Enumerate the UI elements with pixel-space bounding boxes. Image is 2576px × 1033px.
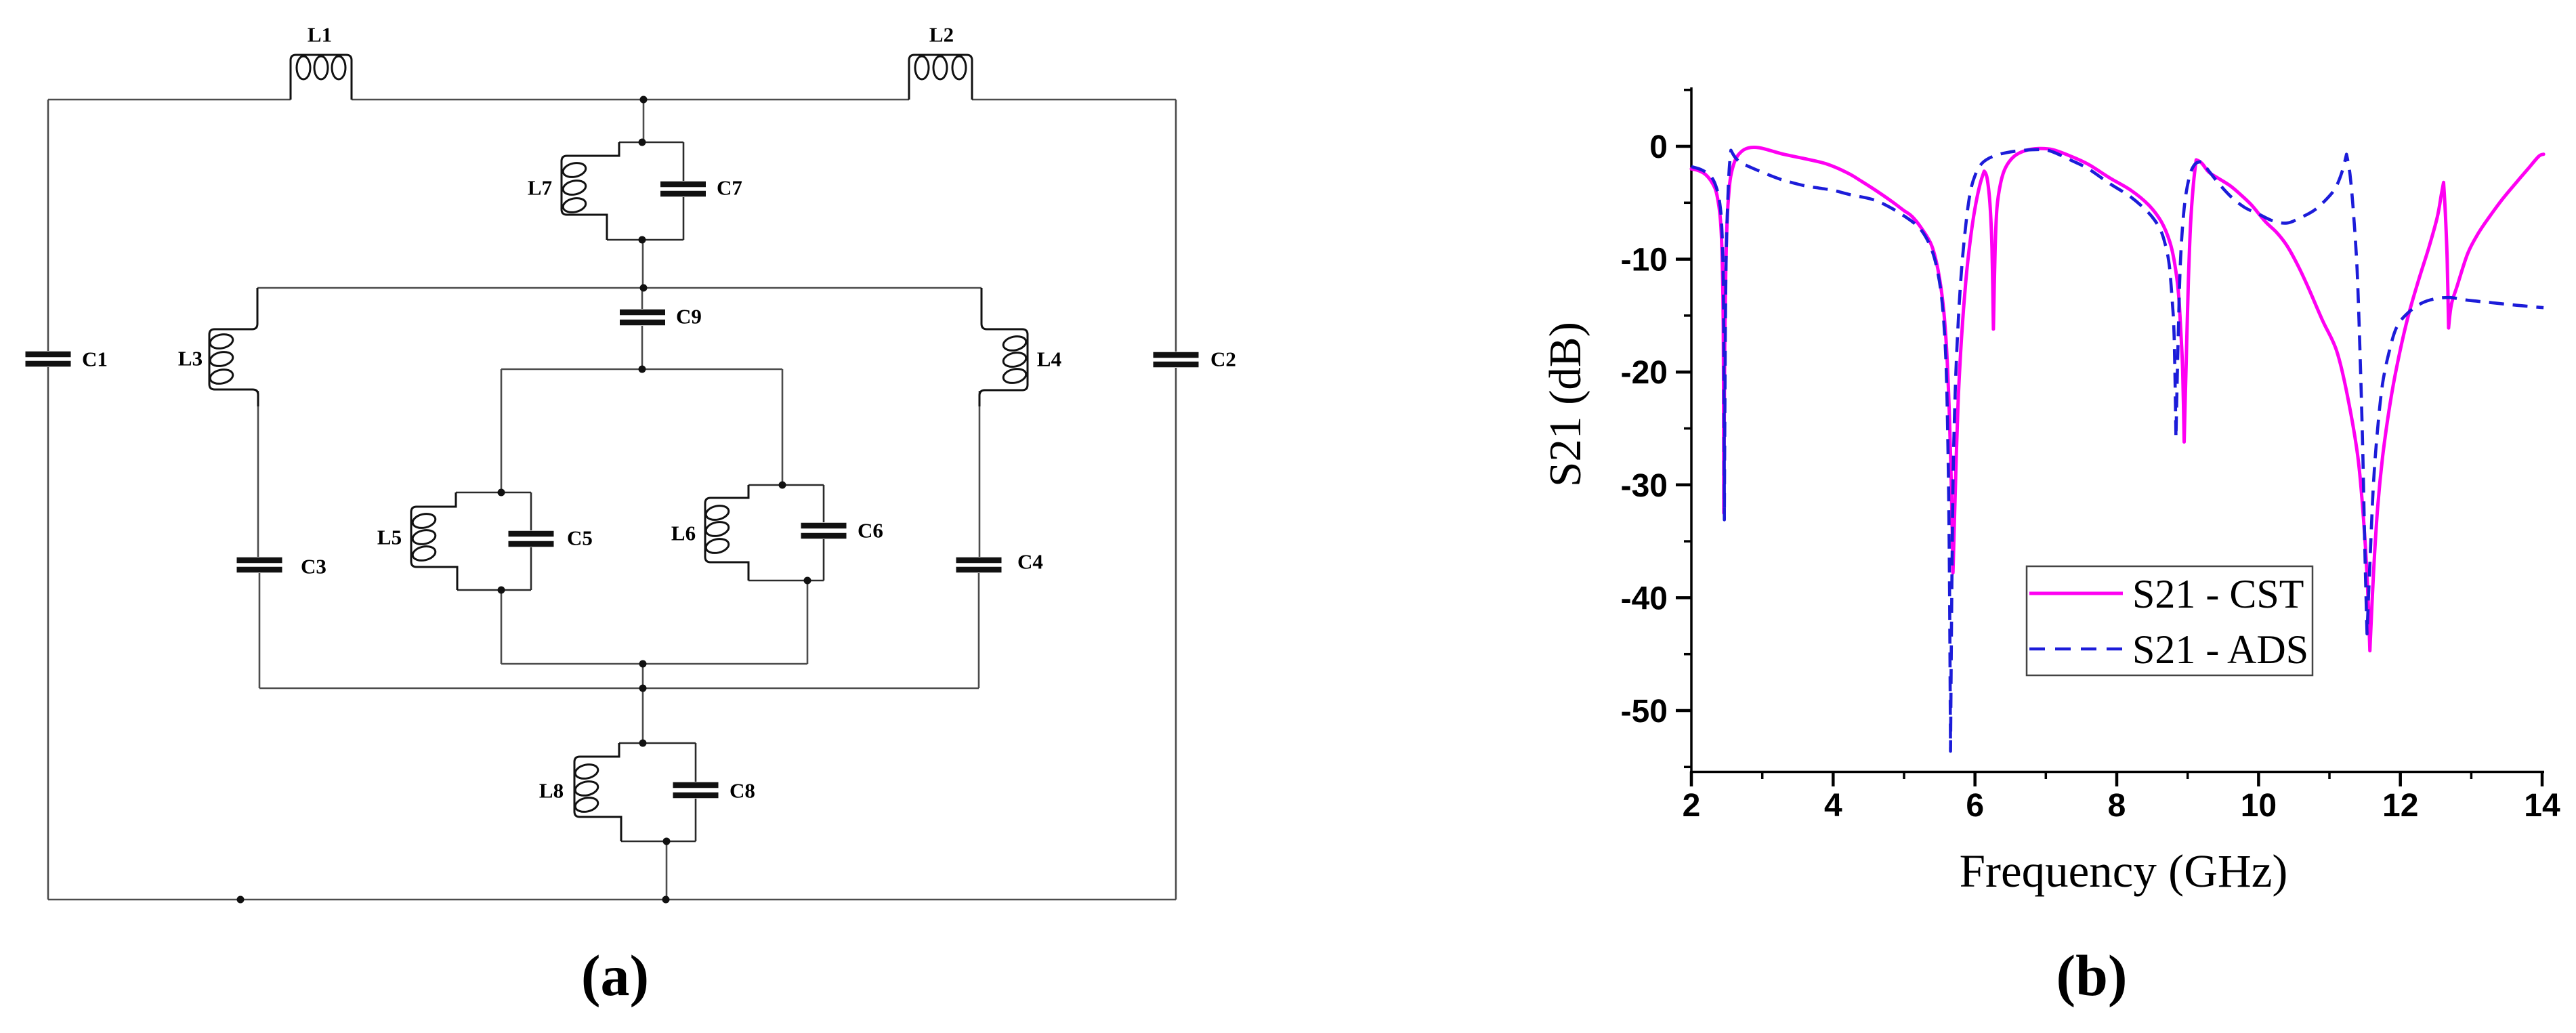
svg-text:C3: C3 bbox=[301, 555, 326, 578]
svg-text:0: 0 bbox=[1649, 129, 1668, 165]
svg-text:-20: -20 bbox=[1621, 355, 1668, 391]
svg-text:-40: -40 bbox=[1621, 581, 1668, 616]
svg-text:L6: L6 bbox=[671, 522, 696, 545]
svg-text:C5: C5 bbox=[567, 526, 593, 550]
svg-text:(a): (a) bbox=[581, 943, 649, 1008]
svg-text:(b): (b) bbox=[2056, 943, 2127, 1008]
svg-text:L4: L4 bbox=[1037, 347, 1061, 371]
svg-text:C7: C7 bbox=[717, 176, 742, 200]
svg-text:L1: L1 bbox=[308, 23, 332, 47]
svg-text:L7: L7 bbox=[528, 176, 552, 200]
svg-text:S21 - CST: S21 - CST bbox=[2132, 572, 2304, 616]
svg-text:S21 - ADS: S21 - ADS bbox=[2132, 627, 2308, 672]
svg-text:C9: C9 bbox=[676, 305, 702, 329]
svg-text:L3: L3 bbox=[178, 347, 203, 371]
svg-text:S21 (dB): S21 (dB) bbox=[1540, 322, 1590, 487]
svg-text:Frequency (GHz): Frequency (GHz) bbox=[1960, 845, 2288, 897]
svg-text:C2: C2 bbox=[1210, 347, 1236, 371]
svg-text:C6: C6 bbox=[858, 519, 883, 543]
svg-text:14: 14 bbox=[2524, 788, 2560, 824]
svg-text:-10: -10 bbox=[1621, 243, 1668, 278]
svg-text:L5: L5 bbox=[377, 526, 402, 549]
svg-text:C4: C4 bbox=[1017, 550, 1043, 574]
svg-text:-30: -30 bbox=[1621, 468, 1668, 504]
svg-text:L8: L8 bbox=[539, 779, 564, 803]
svg-text:2: 2 bbox=[1683, 788, 1701, 824]
svg-text:C1: C1 bbox=[82, 347, 108, 371]
svg-text:8: 8 bbox=[2108, 788, 2126, 824]
svg-text:L2: L2 bbox=[929, 23, 954, 47]
svg-text:4: 4 bbox=[1824, 788, 1842, 824]
svg-text:12: 12 bbox=[2382, 788, 2418, 824]
svg-text:6: 6 bbox=[1966, 788, 1984, 824]
svg-text:10: 10 bbox=[2241, 788, 2277, 824]
svg-text:-50: -50 bbox=[1621, 694, 1668, 730]
svg-text:C8: C8 bbox=[730, 779, 755, 803]
